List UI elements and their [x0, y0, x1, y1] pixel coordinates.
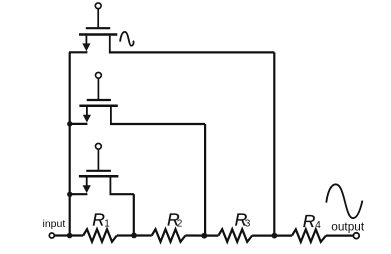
svg-text:4: 4 [315, 220, 321, 231]
svg-text:2: 2 [177, 219, 183, 230]
svg-text:output: output [331, 219, 365, 233]
svg-text:R: R [303, 211, 316, 231]
svg-text:1: 1 [104, 219, 110, 230]
svg-text:input: input [43, 218, 66, 230]
svg-text:3: 3 [245, 219, 251, 230]
